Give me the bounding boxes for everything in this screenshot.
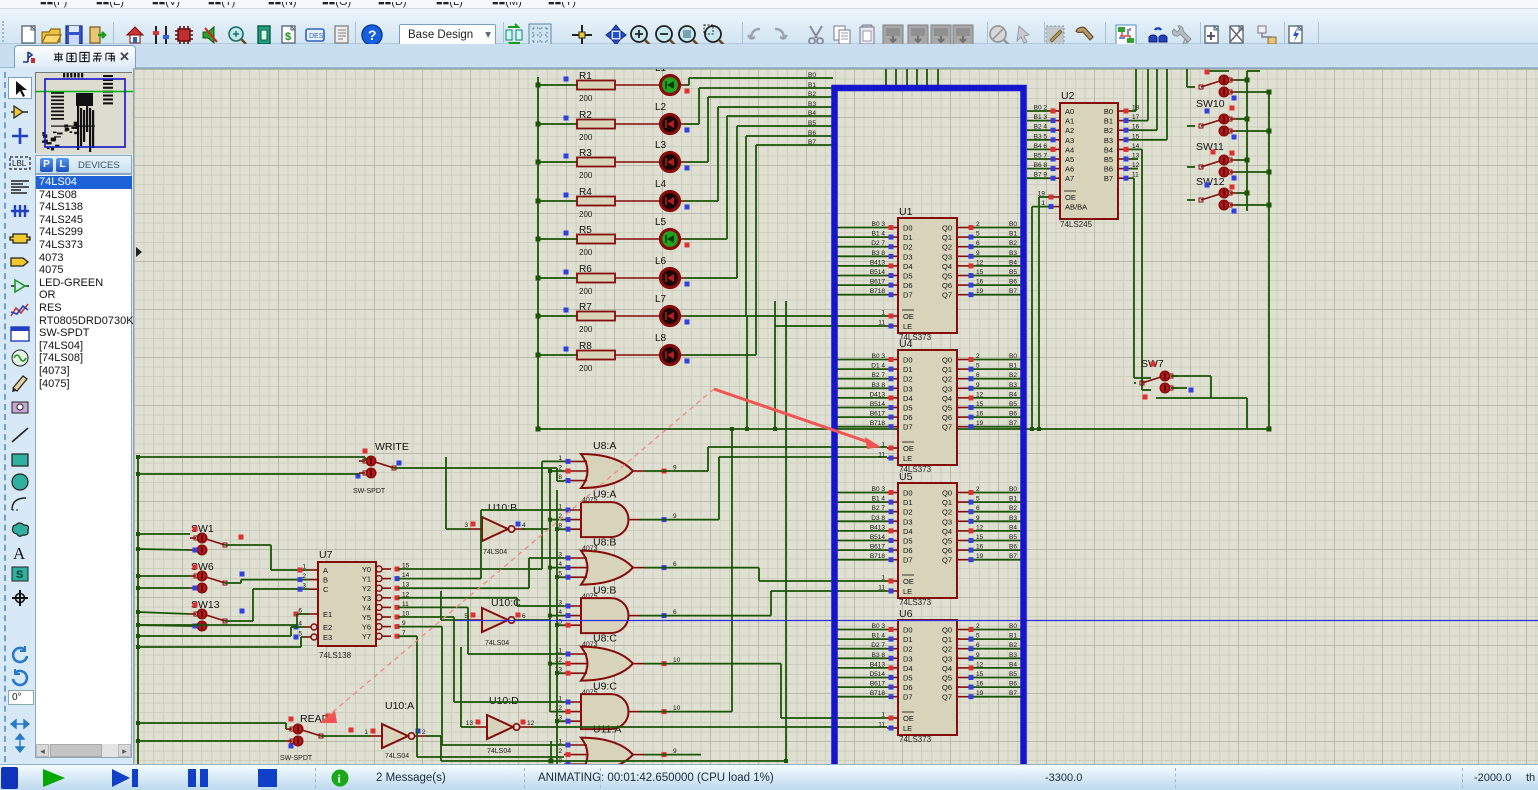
wire U2 lower B pins to SW7	[1130, 149, 1151, 390]
svg-text:B4: B4	[1009, 391, 1017, 398]
svg-text:9: 9	[976, 250, 980, 257]
LED L3	[615, 140, 690, 172]
svg-text:B3: B3	[1009, 382, 1017, 389]
svg-text:D7: D7	[903, 423, 913, 432]
wire SW10 contacts to rails	[1187, 80, 1269, 92]
svg-text:A4: A4	[1065, 145, 1074, 154]
svg-text:B2: B2	[1009, 505, 1017, 512]
svg-text:Q3: Q3	[942, 517, 952, 526]
svg-text:D5: D5	[903, 404, 913, 413]
svg-text:9: 9	[976, 382, 980, 389]
inverter U10:C 74LS04	[464, 597, 526, 647]
svg-text:LE: LE	[903, 587, 912, 596]
svg-text:B3: B3	[1009, 652, 1017, 659]
wire LED L7 to bus B6	[679, 136, 833, 316]
switch READ SW-SPDT	[280, 713, 354, 762]
svg-text:B2 4: B2 4	[1034, 124, 1048, 131]
svg-text:D2: D2	[903, 375, 913, 384]
svg-text:D0: D0	[903, 489, 913, 498]
resistor R4	[536, 187, 616, 219]
svg-text:1: 1	[364, 729, 368, 736]
svg-text:D514: D514	[869, 671, 885, 678]
wire READ to inverter U10:A	[321, 735, 370, 737]
svg-text:B1 4: B1 4	[872, 496, 886, 503]
svg-text:AB/BA: AB/BA	[1065, 203, 1087, 212]
svg-text:R7: R7	[579, 302, 592, 313]
svg-text:WRITE: WRITE	[375, 441, 409, 453]
svg-text:B4: B4	[1009, 259, 1017, 266]
wire LED L4 to bus B3	[679, 107, 833, 201]
svg-text:13: 13	[466, 720, 474, 727]
svg-text:200: 200	[579, 364, 593, 373]
svg-text:6: 6	[976, 642, 980, 649]
svg-text:D5: D5	[903, 674, 913, 683]
svg-text:Y3: Y3	[362, 594, 371, 603]
wire gate outputs to latch OE/LE	[640, 429, 888, 755]
svg-text:B413: B413	[870, 259, 886, 266]
svg-text:Q3: Q3	[942, 654, 952, 663]
svg-text:D1: D1	[903, 635, 913, 644]
svg-text:B1 4: B1 4	[872, 231, 886, 238]
svg-text:Q2: Q2	[942, 375, 952, 384]
svg-text:C: C	[323, 585, 329, 594]
svg-text:5: 5	[976, 363, 980, 370]
svg-text:U2: U2	[1061, 90, 1075, 102]
latch U6 74LS373	[833, 608, 1024, 744]
svg-text:D4: D4	[903, 262, 913, 271]
svg-text:B7: B7	[1009, 690, 1017, 697]
svg-text:D6: D6	[903, 546, 913, 555]
svg-text:B4: B4	[1009, 661, 1017, 668]
svg-text:2: 2	[976, 486, 980, 493]
svg-text:5: 5	[976, 496, 980, 503]
latch U1 74LS373	[833, 206, 1024, 342]
svg-text:R1: R1	[579, 71, 592, 82]
svg-text:LE: LE	[903, 322, 912, 331]
svg-text:B6: B6	[808, 130, 816, 137]
wire left resistor rail	[537, 77, 539, 429]
resistor R3	[536, 148, 616, 180]
svg-text:16: 16	[976, 681, 984, 688]
svg-text:Q5: Q5	[942, 537, 952, 546]
svg-text:Y1: Y1	[362, 575, 371, 584]
svg-text:D2: D2	[903, 645, 913, 654]
gate U11:A 4075	[558, 724, 677, 788]
svg-text:D1: D1	[903, 233, 913, 242]
wire WRITE to gates	[394, 468, 564, 481]
svg-text:Q7: Q7	[942, 291, 952, 300]
svg-text:2: 2	[302, 573, 306, 580]
svg-text:200: 200	[579, 94, 593, 103]
svg-text:B5: B5	[1009, 534, 1017, 541]
latch U4 74LS373	[833, 338, 1024, 474]
svg-text:B413: B413	[870, 661, 886, 668]
svg-text:E3: E3	[323, 633, 332, 642]
wire SW6 to U7.B	[225, 580, 309, 583]
svg-text:D6: D6	[903, 683, 913, 692]
wire U10:D net	[461, 647, 887, 727]
svg-text:B1: B1	[1009, 363, 1017, 370]
wire SW12 contacts to rails	[1187, 160, 1269, 172]
wire gate shared vertical nets	[548, 469, 564, 764]
wire SW1 to U7.A	[225, 545, 309, 570]
wire SW10 common riser	[1187, 69, 1260, 87]
svg-text:D1 4: D1 4	[871, 363, 885, 370]
svg-text:B617: B617	[870, 411, 886, 418]
svg-text:B5: B5	[1104, 155, 1113, 164]
svg-text:3: 3	[464, 522, 468, 529]
svg-text:D2 7: D2 7	[871, 642, 885, 649]
svg-text:16: 16	[976, 411, 984, 418]
switch indicator squares right column	[1205, 70, 1237, 214]
svg-text:SW10: SW10	[1196, 98, 1225, 110]
svg-text:D4: D4	[903, 527, 913, 536]
svg-text:B4: B4	[1009, 524, 1017, 531]
svg-text:A7: A7	[1065, 174, 1074, 183]
svg-text:Y6: Y6	[362, 623, 371, 632]
svg-text:6: 6	[976, 372, 980, 379]
svg-text:OE: OE	[903, 577, 914, 586]
svg-text:74LS04: 74LS04	[487, 748, 511, 755]
svg-text:15: 15	[976, 269, 984, 276]
svg-text:B413: B413	[870, 524, 886, 531]
svg-text:B3: B3	[1009, 250, 1017, 257]
svg-text:Q4: Q4	[942, 527, 952, 536]
inverter U10:D 74LS04	[466, 695, 535, 755]
svg-text:D5: D5	[903, 537, 913, 546]
resistor R7	[536, 302, 616, 334]
svg-text:B7: B7	[1009, 553, 1017, 560]
gate U8:B 4075	[558, 537, 677, 601]
gate U9:A 4073	[558, 489, 677, 553]
svg-text:B2 7: B2 7	[872, 505, 886, 512]
svg-text:D3: D3	[903, 252, 913, 261]
svg-text:Y2: Y2	[362, 584, 371, 593]
wire LED L3 to bus B2	[679, 97, 833, 162]
svg-text:LBL: LBL	[12, 159, 27, 168]
svg-text:B3 8: B3 8	[872, 250, 886, 257]
svg-text:B2 7: B2 7	[872, 372, 886, 379]
svg-text:Y0: Y0	[362, 565, 371, 574]
svg-text:B4: B4	[1104, 145, 1113, 154]
resistor R1	[536, 71, 616, 103]
wire SW13 to U7.C	[225, 589, 309, 621]
svg-text:B5: B5	[1009, 269, 1017, 276]
svg-text:A6: A6	[1065, 165, 1074, 174]
svg-text:D2: D2	[903, 243, 913, 252]
svg-text:D413: D413	[869, 391, 885, 398]
svg-text:Q2: Q2	[942, 508, 952, 517]
svg-text:6: 6	[522, 613, 526, 620]
svg-text:Q1: Q1	[942, 233, 952, 242]
LED L1	[615, 63, 690, 95]
svg-text:B7: B7	[808, 139, 816, 146]
switch SW12 SW-SPDT	[1196, 155, 1236, 188]
svg-text:B7: B7	[1104, 174, 1113, 183]
svg-text:U1: U1	[899, 206, 913, 218]
svg-text:E1: E1	[323, 610, 332, 619]
svg-text:A0: A0	[1065, 107, 1074, 116]
LED L7	[615, 294, 690, 326]
svg-text:B617: B617	[870, 681, 886, 688]
svg-text:74LS04: 74LS04	[483, 549, 507, 556]
svg-text:B3 8: B3 8	[872, 382, 886, 389]
svg-text:U7: U7	[319, 549, 333, 561]
svg-text:Q2: Q2	[942, 645, 952, 654]
svg-text:L5: L5	[655, 217, 667, 228]
svg-text:B617: B617	[870, 279, 886, 286]
svg-text:B0 3: B0 3	[872, 623, 886, 630]
LED L5	[615, 217, 690, 249]
wire LED L6 to bus B5	[679, 126, 833, 278]
gate U9:C 4073	[555, 681, 681, 745]
buffer U2 74LS245	[1027, 90, 1140, 229]
svg-text:9: 9	[976, 515, 980, 522]
svg-text:OE: OE	[903, 312, 914, 321]
svg-text:Q0: Q0	[942, 224, 952, 233]
svg-text:Q3: Q3	[942, 384, 952, 393]
svg-text:B718: B718	[870, 420, 886, 427]
svg-text:D7: D7	[903, 556, 913, 565]
svg-text:B: B	[323, 576, 328, 585]
svg-text:12: 12	[976, 391, 984, 398]
svg-text:U6: U6	[899, 608, 913, 620]
svg-text:Q6: Q6	[942, 413, 952, 422]
junction dots on y428 wire	[730, 427, 1041, 763]
gate U9:B 4073	[558, 585, 677, 649]
LED L6	[615, 256, 690, 288]
svg-text:200: 200	[579, 325, 593, 334]
svg-text:B1 4: B1 4	[872, 633, 886, 640]
switch SW6 SW-SPDT	[190, 561, 245, 593]
svg-text:B7: B7	[1009, 420, 1017, 427]
LED L8	[615, 333, 690, 365]
svg-text:19: 19	[976, 420, 984, 427]
svg-text:L2: L2	[655, 102, 667, 113]
svg-text:B2: B2	[1009, 372, 1017, 379]
svg-text:D3: D3	[903, 517, 913, 526]
svg-text:U8:C: U8:C	[593, 633, 617, 645]
svg-text:B0: B0	[1009, 353, 1017, 360]
svg-text:U10:A: U10:A	[385, 700, 414, 712]
origin marker	[136, 247, 142, 257]
svg-text:B2: B2	[1009, 240, 1017, 247]
svg-text:74LS04: 74LS04	[385, 753, 409, 760]
inverter U10:A 74LS04	[364, 700, 426, 760]
svg-text:U5: U5	[899, 471, 913, 483]
svg-text:D4: D4	[903, 664, 913, 673]
svg-text:U8:B: U8:B	[593, 537, 616, 549]
svg-text:B617: B617	[870, 544, 886, 551]
wire U10:B net	[446, 457, 550, 529]
svg-text:B514: B514	[870, 269, 886, 276]
svg-text:Q5: Q5	[942, 674, 952, 683]
svg-text:Q3: Q3	[942, 252, 952, 261]
svg-text:L7: L7	[655, 294, 667, 305]
svg-text:B0: B0	[1009, 221, 1017, 228]
svg-text:L3: L3	[655, 140, 667, 151]
svg-text:15: 15	[976, 671, 984, 678]
svg-text:Q1: Q1	[942, 498, 952, 507]
svg-text:Q6: Q6	[942, 546, 952, 555]
svg-text:B0: B0	[1009, 623, 1017, 630]
svg-text:U8:A: U8:A	[593, 440, 616, 452]
wire SW14 contacts to rails	[1187, 193, 1269, 205]
svg-text:Q4: Q4	[942, 262, 952, 271]
svg-text:19: 19	[976, 690, 984, 697]
svg-text:B7: B7	[1009, 288, 1017, 295]
wire LED L8 to bus B7	[679, 145, 833, 355]
svg-text:SW11: SW11	[1196, 141, 1224, 153]
switch SW1 SW-SPDT	[190, 523, 244, 555]
bus box (thick blue)	[835, 88, 1024, 765]
svg-text:LE: LE	[903, 724, 912, 733]
decoder U7 74LS138	[294, 549, 410, 660]
wire bus top entry stubs	[886, 69, 938, 85]
svg-text:3: 3	[302, 583, 306, 590]
svg-text:B1: B1	[1009, 231, 1017, 238]
svg-text:Y4: Y4	[362, 603, 371, 612]
svg-text:B1: B1	[1009, 496, 1017, 503]
svg-text:D1: D1	[903, 498, 913, 507]
svg-text:D6: D6	[903, 281, 913, 290]
wire LED L1 to bus B0	[679, 78, 833, 85]
wire U10:C net	[441, 591, 550, 620]
svg-text:B6: B6	[1104, 165, 1113, 174]
svg-text:200: 200	[579, 133, 593, 142]
blue ruler line	[456, 620, 1538, 622]
svg-text:B7 9: B7 9	[1034, 172, 1048, 179]
svg-text:B3: B3	[1009, 515, 1017, 522]
svg-text:12: 12	[976, 524, 984, 531]
wire LED L2 to bus B1	[679, 88, 833, 124]
switch SW14 SW-SPDT	[1199, 188, 1236, 209]
svg-text:$: $	[285, 31, 291, 43]
wire long vertical x=785	[785, 301, 787, 761]
wire U7 enable nets	[138, 614, 309, 647]
svg-text:B6 8: B6 8	[1034, 162, 1048, 169]
wire left rail horizontals	[138, 457, 365, 741]
svg-text:SW-SPDT: SW-SPDT	[280, 755, 313, 762]
svg-text:D0: D0	[903, 626, 913, 635]
svg-text:74LS04: 74LS04	[485, 640, 509, 647]
svg-text:Q4: Q4	[942, 664, 952, 673]
svg-text:U11:A: U11:A	[593, 724, 621, 736]
svg-text:D6: D6	[903, 413, 913, 422]
svg-text:B3: B3	[808, 101, 816, 108]
svg-text:B1: B1	[808, 82, 816, 89]
svg-text:B6: B6	[1009, 279, 1017, 286]
svg-text:5: 5	[976, 633, 980, 640]
svg-text:74LS373: 74LS373	[899, 598, 932, 607]
svg-text:D5: D5	[903, 272, 913, 281]
wire SW7 out to rail	[1134, 376, 1247, 429]
svg-text:R4: R4	[579, 187, 592, 198]
svg-text:S: S	[16, 569, 23, 581]
resistor R5	[536, 225, 616, 257]
svg-text:B1: B1	[1009, 633, 1017, 640]
resistor R6	[536, 264, 616, 296]
svg-text:2: 2	[976, 221, 980, 228]
svg-text:16: 16	[976, 279, 984, 286]
svg-text:B0: B0	[1104, 107, 1113, 116]
svg-text:OE: OE	[903, 714, 914, 723]
svg-text:16: 16	[976, 544, 984, 551]
svg-text:U4: U4	[899, 338, 913, 350]
svg-text:4: 4	[522, 522, 526, 529]
svg-text:12: 12	[527, 720, 535, 727]
svg-text:B2: B2	[1104, 126, 1113, 135]
svg-text:U9:C: U9:C	[593, 681, 617, 693]
svg-text:R2: R2	[579, 110, 592, 121]
svg-text:B2: B2	[808, 91, 816, 98]
resistor R2	[536, 110, 616, 142]
svg-text:Q5: Q5	[942, 404, 952, 413]
svg-text:Q2: Q2	[942, 243, 952, 252]
svg-text:1: 1	[302, 564, 306, 571]
svg-text:B0 3: B0 3	[872, 221, 886, 228]
switch SW13 SW-SPDT	[190, 599, 245, 631]
svg-text:D7: D7	[903, 693, 913, 702]
svg-text:B1: B1	[1104, 117, 1113, 126]
svg-text:B5: B5	[1009, 401, 1017, 408]
svg-text:U10:B: U10:B	[488, 502, 517, 514]
svg-text:B2: B2	[1009, 642, 1017, 649]
svg-text:2: 2	[558, 748, 562, 755]
svg-text:OE: OE	[1065, 193, 1076, 202]
svg-text:B3 5: B3 5	[1034, 133, 1048, 140]
svg-text:Q4: Q4	[942, 394, 952, 403]
svg-text:B5: B5	[808, 120, 816, 127]
wire bottom long horizontal y=428	[538, 428, 1269, 430]
svg-text:B6: B6	[1009, 681, 1017, 688]
svg-text:5: 5	[976, 231, 980, 238]
svg-text:L6: L6	[655, 256, 667, 267]
svg-text:L8: L8	[655, 333, 667, 344]
svg-text:DES: DES	[309, 33, 324, 40]
svg-text:74LS373: 74LS373	[899, 735, 932, 744]
svg-text:B718: B718	[870, 288, 886, 295]
wire U7 Y outputs to gates	[398, 461, 564, 757]
svg-text:A: A	[323, 566, 328, 575]
svg-text:R5: R5	[579, 225, 592, 236]
svg-text:B5 7: B5 7	[1034, 153, 1048, 160]
svg-text:Q7: Q7	[942, 423, 952, 432]
svg-text:B6: B6	[1009, 544, 1017, 551]
svg-text:6: 6	[976, 505, 980, 512]
svg-text:74LS138: 74LS138	[319, 651, 352, 660]
wire long vertical x=774 upper	[774, 301, 776, 326]
svg-text:B6: B6	[1009, 411, 1017, 418]
svg-text:B0 2: B0 2	[1034, 105, 1048, 112]
svg-text:74LS245: 74LS245	[1060, 220, 1093, 229]
LED L4	[615, 179, 690, 211]
svg-text:Y5: Y5	[362, 613, 371, 622]
svg-text:A2: A2	[1065, 126, 1074, 135]
svg-text:B718: B718	[870, 553, 886, 560]
svg-text:R8: R8	[579, 341, 592, 352]
wire LED L5 to bus B4	[679, 116, 833, 239]
svg-text:Q0: Q0	[942, 356, 952, 365]
svg-text:Y7: Y7	[362, 632, 371, 641]
wire U2 OE/dir control	[1032, 197, 1049, 429]
svg-text:A3: A3	[1065, 136, 1074, 145]
svg-text:15: 15	[976, 534, 984, 541]
svg-text:2: 2	[976, 353, 980, 360]
svg-text:B0: B0	[1009, 486, 1017, 493]
svg-text:?: ?	[368, 27, 377, 43]
svg-text:D0: D0	[903, 356, 913, 365]
